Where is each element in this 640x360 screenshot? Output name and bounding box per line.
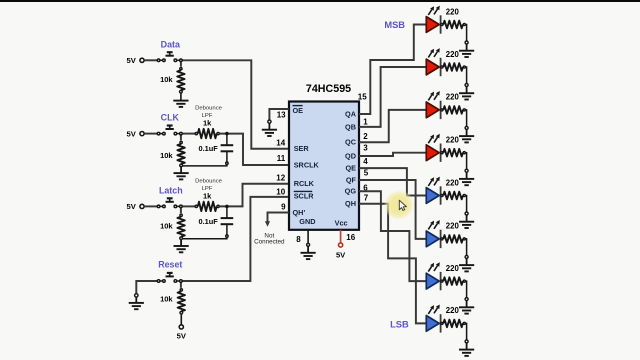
svg-text:Connected: Connected — [254, 239, 285, 246]
pin label QG — [345, 187, 357, 196]
terminal (D2 ground) — [465, 84, 468, 87]
LED D6 (blue) — [426, 220, 440, 248]
wire Vcc pin 16 (red) — [340, 230, 342, 243]
LED D2 (red) — [426, 48, 440, 76]
ground (D2) — [459, 87, 474, 100]
pin label QB — [345, 123, 356, 132]
svg-text:7: 7 — [364, 193, 369, 202]
pin label SCLR (with overline) — [294, 191, 315, 200]
svg-text:220: 220 — [446, 136, 460, 145]
svg-text:QA: QA — [345, 110, 357, 119]
wire Reset node to pull-up resistor — [180, 281, 182, 288]
ground (D5) — [459, 215, 474, 228]
svg-text:10: 10 — [276, 187, 285, 196]
IC U1 74HC595 body — [289, 102, 359, 230]
pin number 10 — [276, 187, 285, 196]
LED D7 (blue) — [426, 262, 440, 290]
resistor 220 (D4) — [441, 136, 466, 157]
pushbutton switch (Latch) — [157, 198, 182, 207]
wire 5V terminal to Latch switch — [144, 205, 157, 207]
mouse cursor — [399, 200, 406, 210]
pin label QF — [346, 175, 357, 184]
pin label QA — [345, 110, 357, 119]
resistor 220 (D6) — [441, 222, 466, 243]
svg-text:5V: 5V — [336, 250, 346, 259]
wire CLK debounce to SRCLK pin 11 — [219, 134, 288, 165]
pin label OE (with overline) — [293, 106, 304, 115]
pushbutton switch (CLK) — [157, 126, 182, 135]
wire ground to Reset switch — [136, 281, 157, 293]
capacitor 0.1uF (Latch debounce) — [198, 206, 233, 226]
pin label RCLK — [294, 179, 315, 188]
svg-text:220: 220 — [446, 7, 460, 16]
node MSB label — [384, 20, 405, 30]
svg-text:10k: 10k — [160, 295, 173, 304]
resistor 220 (D2) — [441, 50, 466, 71]
svg-text:QH: QH — [345, 199, 356, 208]
svg-text:QE: QE — [345, 164, 356, 173]
svg-text:220: 220 — [446, 93, 460, 102]
svg-text:12: 12 — [276, 174, 285, 183]
svg-text:Latch: Latch — [159, 186, 183, 196]
pin number 3 — [363, 144, 368, 153]
terminal (GND pin 8) — [307, 243, 310, 246]
svg-text:Reset: Reset — [158, 259, 182, 269]
node CLK label — [161, 113, 180, 123]
svg-text:10k: 10k — [160, 151, 173, 160]
svg-text:1: 1 — [363, 117, 368, 126]
wire QD pin 3 to LED D4 — [359, 153, 426, 156]
pin number 2 — [363, 132, 368, 141]
wire capacitor return to CLK ground — [182, 151, 228, 166]
wire D7 resistor to ground — [465, 281, 466, 298]
wire Latch debounce to RCLK pin 12 — [219, 184, 288, 207]
svg-text:2: 2 — [363, 132, 368, 141]
pin number 9 — [281, 202, 286, 211]
label 74HC595 — [306, 83, 351, 95]
ground (D3) — [459, 130, 474, 143]
svg-text:5: 5 — [364, 168, 369, 177]
svg-text:Vcc: Vcc — [335, 218, 348, 227]
pin number 7 — [364, 193, 369, 202]
pin number 13 — [277, 110, 286, 119]
svg-text:5V: 5V — [127, 202, 137, 211]
svg-text:QD: QD — [345, 151, 356, 160]
svg-text:0.1uF: 0.1uF — [198, 217, 218, 226]
node Latch label — [159, 186, 183, 196]
wire QA pin 15 to LED D1 — [359, 25, 426, 115]
resistor 220 (D8) — [441, 306, 466, 327]
resistor 1k (Latch debounce) — [195, 191, 219, 211]
5V supply terminal (Reset pull-up) — [177, 325, 187, 341]
resistor 1k (CLK debounce) — [195, 118, 219, 138]
terminal (D3 ground) — [465, 126, 468, 129]
resistor 220 (D7) — [441, 264, 466, 285]
pin number 6 — [363, 184, 368, 193]
svg-text:Data: Data — [161, 39, 180, 49]
pin number 11 — [277, 154, 286, 163]
svg-text:4: 4 — [363, 157, 368, 166]
wire QF pin 5 to LED D6 — [359, 180, 426, 239]
wire 5V terminal to CLK switch — [144, 133, 157, 135]
wire D4 resistor to ground — [465, 153, 466, 170]
pin number 12 — [276, 174, 285, 183]
capacitor 0.1uF (CLK debounce) — [198, 134, 233, 153]
wire Latch node to debounce resistor — [181, 205, 195, 207]
svg-text:1k: 1k — [203, 191, 212, 200]
ground (D1) — [459, 44, 474, 57]
wire QH&#39; pin 9 stub (not connected) — [265, 213, 289, 227]
svg-text:QG: QG — [345, 187, 357, 196]
pin label QD — [345, 151, 356, 160]
svg-text:CLK: CLK — [161, 113, 180, 123]
node Data label — [161, 39, 180, 49]
wire D5 resistor to ground — [465, 196, 466, 213]
wire D1 resistor to ground — [465, 25, 466, 42]
resistor 10k (Data pull-down) — [160, 68, 185, 93]
ground (CLK pull-down) — [174, 167, 189, 180]
svg-text:QC: QC — [345, 138, 357, 147]
terminal (OE ground) — [268, 120, 271, 123]
svg-text:QF: QF — [346, 175, 357, 184]
5V supply terminal (Data) — [127, 56, 145, 65]
ground terminal (Reset switch) — [129, 294, 144, 310]
svg-text:220: 220 — [446, 264, 460, 273]
pushbutton switch (Data) — [157, 52, 182, 61]
svg-text:Debounce: Debounce — [195, 106, 223, 112]
svg-text:QH': QH' — [293, 208, 306, 217]
pin label SER — [294, 144, 310, 153]
wire Data pull-down to ground — [180, 93, 182, 100]
pin label QH&#39; — [293, 208, 306, 217]
LED D8 (blue) — [426, 305, 440, 333]
pin label Vcc — [335, 218, 348, 227]
junction Latch debounce output — [225, 205, 229, 209]
ground (Latch pull-down) — [174, 240, 189, 253]
5V supply terminal (Vcc) — [336, 243, 346, 260]
pushbutton switch (Reset) — [157, 273, 182, 282]
LED D4 (red) — [426, 134, 440, 162]
terminal (D7 ground) — [465, 298, 468, 301]
svg-text:Debounce: Debounce — [195, 178, 223, 184]
ground (GND pin 8) — [301, 247, 316, 260]
wire Latch node to pull-down resistor — [180, 206, 182, 213]
LED D3 (red) — [426, 91, 440, 119]
ground (D6) — [459, 259, 474, 272]
resistor 10k (CLK pull-down) — [160, 141, 185, 166]
pin label QE — [345, 164, 356, 173]
svg-text:16: 16 — [346, 233, 355, 242]
svg-text:15: 15 — [358, 92, 367, 101]
text Not Connected — [254, 232, 285, 245]
svg-text:1k: 1k — [203, 118, 212, 127]
resistor 10k (Reset pull-up) — [160, 289, 185, 314]
LED D5 (blue) — [426, 177, 440, 205]
LED D1 (red) — [426, 6, 440, 34]
pin number 14 — [276, 139, 285, 148]
wire D2 resistor to ground — [465, 67, 466, 84]
svg-text:14: 14 — [276, 139, 285, 148]
wire D6 resistor to ground — [465, 239, 466, 256]
resistor 220 (D1) — [441, 7, 466, 28]
svg-text:LSB: LSB — [390, 319, 409, 329]
pin label QH — [345, 199, 356, 208]
svg-text:5V: 5V — [177, 332, 187, 341]
ground (D4) — [459, 172, 474, 185]
pin number 15 — [358, 92, 367, 101]
terminal (D4 ground) — [465, 169, 468, 172]
wire Data node to SER pin 14 — [181, 60, 289, 148]
pin number 5 — [364, 168, 369, 177]
wire D3 resistor to ground — [465, 110, 466, 127]
svg-text:5V: 5V — [127, 129, 137, 138]
terminal (D6 ground) — [465, 255, 468, 258]
ground (OE) — [262, 123, 277, 136]
wire CLK node to pull-down resistor — [180, 134, 182, 141]
svg-text:8: 8 — [296, 235, 301, 244]
wire Reset node to SCLR pin 10 — [181, 197, 289, 281]
ground (Data pull-down) — [173, 101, 188, 107]
svg-text:220: 220 — [446, 50, 460, 59]
pin number 4 — [363, 157, 368, 166]
svg-text:3: 3 — [363, 144, 368, 153]
wire QB pin 1 to LED D2 — [359, 67, 426, 127]
text Debounce LPF (Latch) — [195, 178, 223, 191]
svg-text:11: 11 — [277, 154, 286, 163]
wire GND pin 8 to ground — [307, 230, 309, 244]
svg-text:SCLR: SCLR — [294, 192, 315, 201]
pin label SRCLK — [294, 160, 320, 169]
svg-text:220: 220 — [446, 306, 460, 315]
svg-text:5V: 5V — [127, 56, 137, 65]
wire QE pin 4 to LED D5 — [359, 168, 426, 195]
mouse cursor highlight — [384, 190, 414, 220]
pin label GND — [299, 217, 315, 226]
wire 5V terminal to Data switch — [144, 59, 157, 61]
node Reset label — [158, 259, 182, 269]
svg-text:13: 13 — [277, 110, 286, 119]
svg-text:10k: 10k — [160, 75, 173, 84]
5V supply terminal (Latch) — [127, 202, 145, 211]
wire CLK node to debounce resistor — [181, 133, 195, 135]
svg-text:OE: OE — [293, 106, 304, 115]
svg-text:9: 9 — [281, 202, 286, 211]
node LSB label — [390, 319, 409, 329]
terminal (D8 ground) — [465, 340, 468, 343]
wire QH pin 7 to LED D8 — [359, 204, 426, 324]
5V supply terminal (CLK) — [127, 129, 145, 138]
resistor 220 (D3) — [441, 93, 466, 114]
wire D8 resistor to ground — [465, 323, 466, 340]
pin number 8 — [296, 235, 301, 244]
wire Reset pull-up to 5V — [180, 314, 182, 325]
svg-text:220: 220 — [446, 222, 460, 231]
resistor 10k (Latch pull-down) — [160, 214, 185, 239]
svg-text:MSB: MSB — [384, 20, 405, 30]
pin label QC — [345, 138, 357, 147]
svg-text:10k: 10k — [160, 221, 173, 230]
svg-text:SRCLK: SRCLK — [294, 160, 320, 169]
text Debounce LPF (CLK) — [195, 106, 223, 119]
resistor 220 (D5) — [441, 178, 466, 199]
wire OE pin 13 to ground — [269, 109, 288, 120]
terminal (D1 ground) — [465, 41, 468, 44]
svg-text:220: 220 — [446, 178, 460, 187]
terminal (D5 ground) — [465, 212, 468, 215]
ground (D7) — [459, 301, 474, 314]
wire QC pin 2 to LED D3 — [359, 110, 426, 142]
svg-text:0.1uF: 0.1uF — [198, 144, 218, 153]
svg-text:74HC595: 74HC595 — [306, 83, 351, 95]
svg-text:QB: QB — [345, 123, 356, 132]
pin number 16 — [346, 233, 355, 242]
svg-text:SER: SER — [294, 144, 310, 153]
wire capacitor return to Latch ground — [182, 224, 228, 239]
wire QG pin 6 to LED D7 — [359, 191, 426, 281]
pin number 1 — [363, 117, 368, 126]
junction CLK debounce output — [225, 132, 229, 136]
svg-text:GND: GND — [299, 217, 315, 226]
ground (D8) — [459, 343, 474, 356]
svg-text:RCLK: RCLK — [294, 179, 315, 188]
wire Data node to pull-down resistor — [180, 60, 182, 66]
